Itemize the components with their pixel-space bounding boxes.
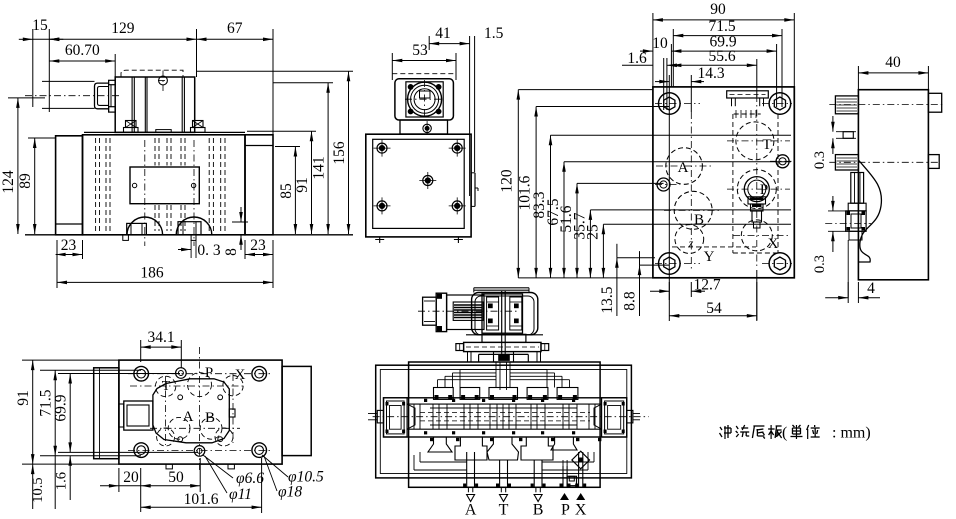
svg-text:85: 85 (278, 183, 295, 199)
svg-text:13.5: 13.5 (599, 286, 616, 313)
svg-text:A: A (678, 160, 689, 176)
svg-text:0. 3: 0. 3 (197, 242, 221, 259)
svg-text:X: X (575, 502, 587, 519)
svg-text:120: 120 (499, 169, 516, 193)
svg-text:φ11: φ11 (229, 486, 252, 503)
svg-text:0.3: 0.3 (812, 151, 828, 169)
svg-text:12.7: 12.7 (693, 277, 720, 294)
svg-text:67: 67 (227, 20, 243, 37)
svg-text:T: T (162, 379, 171, 394)
svg-text:z: z (688, 236, 694, 250)
svg-text:Y: Y (704, 249, 715, 265)
svg-text:23: 23 (250, 237, 266, 254)
svg-text:141: 141 (311, 156, 328, 179)
svg-text:69.9: 69.9 (53, 394, 70, 421)
svg-text:P: P (760, 182, 768, 198)
svg-text:1.6: 1.6 (54, 472, 70, 490)
svg-text:0.3: 0.3 (812, 255, 828, 273)
svg-text:4: 4 (867, 280, 875, 297)
svg-text:B: B (533, 502, 544, 519)
svg-text:10.5: 10.5 (30, 477, 46, 502)
svg-text:89: 89 (17, 173, 34, 189)
svg-text:: mm): : mm) (832, 425, 871, 442)
svg-text:101.6: 101.6 (184, 491, 219, 508)
svg-text:P: P (561, 502, 570, 519)
svg-text:20: 20 (123, 469, 139, 486)
svg-text:15: 15 (32, 17, 48, 34)
svg-text:10: 10 (652, 35, 668, 52)
svg-text:8.8: 8.8 (622, 291, 639, 311)
svg-text:91: 91 (15, 390, 32, 406)
svg-text:186: 186 (140, 265, 164, 282)
svg-text:14.3: 14.3 (697, 65, 724, 82)
svg-text:1.5: 1.5 (484, 25, 504, 42)
svg-text:156: 156 (331, 141, 348, 165)
svg-text:A: A (183, 409, 194, 425)
svg-text:φ6.6: φ6.6 (236, 470, 264, 487)
svg-text:T: T (762, 137, 771, 153)
svg-text:55.6: 55.6 (708, 48, 735, 65)
svg-text:B: B (205, 410, 215, 426)
svg-text:129: 129 (111, 20, 135, 37)
svg-text:71.5: 71.5 (708, 18, 735, 35)
svg-text:φ18: φ18 (278, 484, 302, 501)
svg-text:53: 53 (412, 42, 428, 59)
svg-text:23: 23 (61, 237, 77, 254)
svg-text:T: T (499, 502, 509, 519)
svg-text:A: A (465, 502, 477, 519)
svg-text:91: 91 (294, 177, 311, 193)
svg-text:8: 8 (223, 248, 240, 256)
svg-text:25: 25 (585, 224, 602, 240)
svg-text:34.1: 34.1 (147, 329, 174, 346)
svg-text:X: X (768, 236, 779, 252)
svg-text:90: 90 (710, 1, 726, 18)
svg-text:50: 50 (168, 469, 184, 486)
svg-text:54: 54 (706, 300, 722, 317)
svg-text:124: 124 (0, 170, 17, 194)
svg-text:40: 40 (885, 54, 901, 71)
svg-text:60.70: 60.70 (65, 42, 100, 59)
svg-text:1.6: 1.6 (627, 50, 647, 67)
svg-text:(: ( (782, 425, 787, 442)
svg-text:X: X (235, 367, 246, 383)
svg-text:41: 41 (435, 25, 451, 42)
